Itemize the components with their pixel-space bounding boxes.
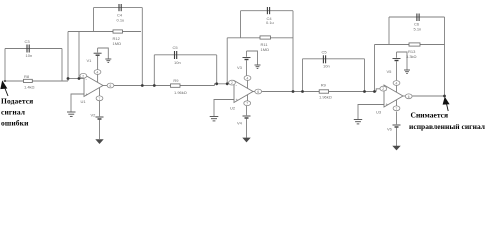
wire stage3 R feedback drop bbox=[374, 45, 376, 92]
capacitor C7 bbox=[323, 55, 325, 63]
svg-text:6: 6 bbox=[110, 84, 112, 88]
wire U2 bottom pin stub bbox=[247, 95, 249, 101]
ground (V1) bbox=[105, 59, 111, 62]
wire stage2 output bbox=[263, 91, 376, 93]
wire loop1 right vertical bbox=[216, 55, 218, 84]
wire C4 loop left vertical bbox=[93, 8, 95, 32]
svg-text:2: 2 bbox=[231, 81, 233, 85]
wire input loop left vertical bbox=[4, 49, 6, 82]
ground (V4) bbox=[242, 138, 250, 143]
wire U1 top pin stub bbox=[97, 74, 99, 82]
resistor R19 bbox=[319, 82, 332, 99]
input arrow bbox=[1, 82, 8, 97]
svg-text:C3: C3 bbox=[25, 39, 31, 44]
svg-text:V4: V4 bbox=[237, 121, 243, 126]
wire op-amp U3 noninverting input bbox=[358, 105, 384, 120]
wire input loop top bbox=[5, 48, 62, 50]
battery V4 bbox=[237, 106, 251, 138]
junction dots bbox=[4, 77, 446, 97]
resistor R11 bbox=[260, 36, 271, 52]
wire U2 top pin stub bbox=[247, 80, 249, 88]
ground (V3) bbox=[255, 65, 261, 68]
svg-text:4: 4 bbox=[97, 71, 99, 75]
svg-text:10n: 10n bbox=[26, 53, 33, 58]
svg-text:U1: U1 bbox=[81, 99, 87, 104]
wire jog to U3 input bbox=[376, 89, 380, 92]
wire U3 bottom pin stub bbox=[396, 100, 398, 106]
wire op-amp U1 inverting input bbox=[68, 78, 84, 80]
svg-text:R8: R8 bbox=[24, 74, 30, 79]
output arrow bbox=[443, 98, 449, 111]
resistor R8 bbox=[24, 74, 35, 90]
wire feedback drop B bbox=[78, 32, 80, 79]
svg-text:1.96kΩ: 1.96kΩ bbox=[174, 90, 187, 95]
svg-text:0.1u: 0.1u bbox=[266, 20, 274, 25]
wire stage3 C feedback top bbox=[389, 16, 445, 18]
svg-text:1.96kΩ: 1.96kΩ bbox=[319, 94, 332, 99]
wire jog to U2 input bbox=[215, 84, 228, 86]
svg-text:10n: 10n bbox=[323, 64, 330, 69]
wire U2 output stub bbox=[253, 91, 263, 93]
svg-text:0.1u: 0.1u bbox=[117, 18, 125, 23]
capacitor C4 bbox=[119, 4, 121, 11]
svg-text:U3: U3 bbox=[376, 110, 382, 115]
wire loop2 left vertical bbox=[302, 59, 304, 92]
wire U3 output stub bbox=[403, 95, 413, 97]
wire op-amp U2 noninverting input bbox=[214, 100, 234, 117]
wire stage3 output bbox=[413, 95, 445, 97]
wire stage1 output bbox=[113, 85, 215, 87]
wire feedback drop A bbox=[67, 32, 69, 82]
svg-text:Снимается: Снимается bbox=[411, 111, 449, 120]
resistor R13 bbox=[406, 43, 420, 59]
svg-text:10n: 10n bbox=[174, 60, 181, 65]
wire op-amp U1 noninverting input bbox=[71, 94, 84, 112]
wire battery V5 to ground hook bbox=[397, 52, 408, 70]
wire U1 bottom pin stub bbox=[99, 88, 101, 96]
wire R12 feedback horizontal bbox=[68, 31, 141, 33]
wire input loop bottom bbox=[4, 80, 69, 82]
wire battery V3 to ground hook bbox=[247, 51, 258, 65]
wire stage1 feedback right vertical bbox=[141, 8, 143, 86]
svg-text:C5: C5 bbox=[322, 49, 328, 54]
wire stage2 C feedback top bbox=[241, 10, 294, 12]
capacitor C2 bbox=[267, 7, 269, 14]
battery V2 bbox=[91, 101, 104, 139]
svg-text:C5: C5 bbox=[173, 45, 179, 50]
svg-text:V5: V5 bbox=[387, 69, 393, 74]
svg-text:V6: V6 bbox=[387, 127, 393, 132]
wire loop2 right vertical bbox=[364, 59, 366, 92]
ground (V6) bbox=[392, 146, 400, 151]
wire loop1 top bbox=[154, 54, 216, 56]
resistor R12 bbox=[113, 30, 123, 46]
svg-text:1.4kΩ: 1.4kΩ bbox=[24, 85, 35, 90]
svg-text:7: 7 bbox=[246, 102, 248, 106]
op-amp U1 bbox=[80, 70, 114, 104]
svg-text:3.3kΩ: 3.3kΩ bbox=[406, 54, 417, 59]
ground (V5) bbox=[404, 70, 410, 73]
battery V5 bbox=[387, 52, 401, 80]
wire R13 feedback horizontal bbox=[375, 44, 445, 46]
svg-text:V1: V1 bbox=[87, 58, 93, 63]
svg-text:4: 4 bbox=[247, 77, 249, 81]
battery V6 bbox=[387, 112, 401, 147]
wire input loop right vertical bbox=[61, 49, 63, 82]
resistor R9 bbox=[171, 78, 187, 95]
wire stage2 C loop left vertical bbox=[240, 11, 242, 38]
capacitor C6 bbox=[417, 14, 419, 22]
wire C4 feedback top bbox=[94, 7, 143, 9]
op-amp U3 bbox=[376, 81, 412, 115]
svg-text:1MΩ: 1MΩ bbox=[113, 41, 122, 46]
wire stage2 R feedback drop bbox=[226, 38, 228, 84]
op-amp U2 bbox=[229, 76, 262, 111]
ground (U1 +input) bbox=[67, 112, 76, 116]
svg-text:R9: R9 bbox=[321, 82, 327, 87]
svg-text:исправленный сигнал: исправленный сигнал bbox=[409, 122, 486, 131]
wire U1 output stub bbox=[103, 85, 113, 87]
svg-text:2: 2 bbox=[382, 87, 384, 91]
wire battery V1 to ground hook bbox=[98, 48, 109, 59]
capacitor C3 bbox=[27, 45, 29, 53]
svg-text:R9: R9 bbox=[173, 78, 179, 83]
battery V1 bbox=[94, 48, 102, 70]
svg-text:5.1n: 5.1n bbox=[414, 27, 422, 32]
svg-text:ошибки: ошибки bbox=[1, 119, 29, 128]
svg-text:Подается: Подается bbox=[1, 97, 33, 106]
svg-text:U2: U2 bbox=[230, 106, 236, 111]
ground (U2 +input) bbox=[210, 117, 219, 121]
svg-text:+: + bbox=[386, 102, 389, 107]
svg-text:6: 6 bbox=[257, 90, 259, 94]
wire stage3 feedback right vertical bbox=[444, 17, 446, 96]
wire loop1 left vertical bbox=[153, 55, 155, 86]
svg-text:+: + bbox=[236, 98, 239, 103]
ground (V2) bbox=[95, 139, 103, 144]
svg-text:7: 7 bbox=[396, 107, 398, 111]
svg-text:4: 4 bbox=[396, 82, 398, 86]
wire loop2 top bbox=[303, 58, 365, 60]
ground (U3 +input) bbox=[354, 120, 362, 124]
svg-text:V2: V2 bbox=[91, 113, 97, 118]
svg-text:V3: V3 bbox=[237, 65, 243, 70]
svg-text:6: 6 bbox=[408, 95, 410, 99]
svg-text:7: 7 bbox=[99, 97, 101, 101]
wire R11 feedback horizontal bbox=[227, 37, 293, 39]
capacitor C5 bbox=[175, 51, 177, 59]
wire stage2 feedback right vertical bbox=[292, 11, 294, 92]
battery V3 bbox=[237, 51, 251, 77]
svg-text:1MΩ: 1MΩ bbox=[261, 47, 270, 52]
wire stage3 C loop left vertical bbox=[388, 17, 390, 45]
svg-text:2: 2 bbox=[82, 74, 84, 78]
svg-text:сигнал: сигнал bbox=[1, 108, 26, 117]
svg-text:+: + bbox=[86, 92, 89, 97]
wire U3 top pin stub bbox=[396, 85, 398, 92]
